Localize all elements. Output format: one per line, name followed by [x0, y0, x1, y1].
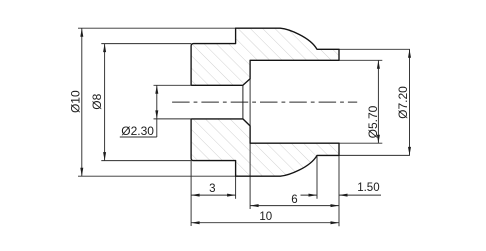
svg-text:Ø7.20: Ø7.20 — [396, 86, 410, 119]
svg-text:1.50: 1.50 — [357, 182, 379, 194]
svg-text:Ø5.70: Ø5.70 — [366, 105, 380, 138]
svg-text:6: 6 — [291, 194, 297, 206]
svg-text:10: 10 — [259, 211, 272, 223]
svg-text:Ø8: Ø8 — [90, 93, 104, 109]
svg-text:3: 3 — [209, 183, 215, 195]
svg-text:Ø10: Ø10 — [69, 90, 83, 113]
svg-text:Ø2.30: Ø2.30 — [121, 124, 154, 138]
